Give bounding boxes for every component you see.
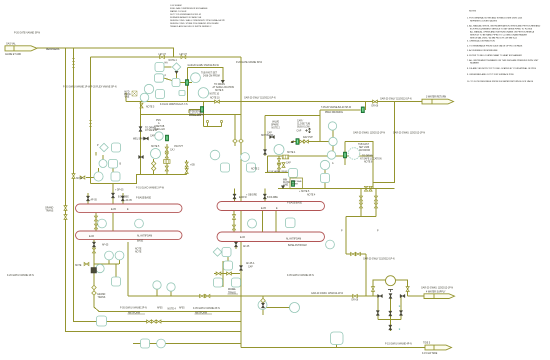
svg-text:NUMBER: NUMBER	[470, 63, 479, 65]
valve vessel gap R b	[232, 225, 235, 230]
instrument circle drain R	[290, 303, 300, 313]
svg-text:NOTES: NOTES	[469, 11, 477, 13]
svg-text:+ GB/GRE: + GB/GRE	[246, 195, 257, 197]
svg-text:AF05: AF05	[179, 306, 185, 309]
svg-text:LET-07: LET-07	[159, 54, 167, 56]
svg-text:NOTE 4: NOTE 4	[168, 309, 177, 311]
svg-text:GAR-20 GWKU 115/2012-1P-N: GAR-20 GWKU 115/2012-1P-N	[353, 132, 385, 135]
svg-text:AT SAFE W: AT SAFE W	[145, 129, 158, 132]
svg-text:SURFACE AREA 23 FC AREC HE: SURFACE AREA 23 FC AREC HE	[170, 16, 202, 19]
wire teal sq bottom stub	[336, 345, 338, 348]
svg-text:6. FILTER TO BE LOCATED NEAR T: 6. FILTER TO BE LOCATED NEAR TO HEAT EXC…	[467, 54, 522, 57]
diamond chain x153 b	[151, 166, 156, 171]
valve dark wel spare	[144, 137, 149, 140]
svg-text:GAR-20 GWLY 115/2012-1P-N: GAR-20 GWLY 115/2012-1P-N	[363, 258, 395, 261]
valve gv right prec (horiz)	[361, 107, 364, 113]
svg-text:AF-05: AF-05	[243, 245, 250, 248]
instrument circle row2	[94, 172, 103, 181]
valve dark AF-05 b	[121, 196, 124, 201]
valve LET-07 b	[181, 55, 186, 58]
wire left box lower right edge	[127, 242, 129, 296]
svg-text:GAR-20 GWKU 115/2012-1P-N: GAR-20 GWKU 115/2012-1P-N	[421, 286, 453, 289]
svg-text:F-05 GWKU VANNE 4P-N: F-05 GWKU VANNE 4P-N	[287, 274, 314, 277]
svg-text:CAP: CAP	[297, 129, 302, 132]
wire right x263 drain chain	[263, 296, 290, 315]
svg-text:AL ANTIFOAM: AL ANTIFOAM	[137, 235, 152, 238]
ticks y254	[351, 252, 356, 255]
wire right prec stub	[320, 102, 366, 110]
instrument square left mid	[112, 143, 121, 152]
instrument square top right	[179, 91, 185, 96]
svg-text:TUB FAST SET: TUB FAST SET	[201, 72, 218, 75]
bowties y296 pair	[200, 294, 205, 297]
wire y343 stub	[133, 343, 241, 345]
valve gv right upper	[296, 139, 299, 145]
svg-text:2436 CM FROM: 2436 CM FROM	[203, 76, 220, 78]
valve chain x279 b	[277, 164, 280, 169]
svg-text:ORDER: ORDER	[291, 184, 298, 186]
wire left vessel feed drop	[112, 184, 114, 205]
instrument square	[172, 79, 180, 87]
svg-text:TO DRAIN: TO DRAIN	[362, 155, 373, 158]
instrument square below vessel R	[222, 248, 231, 257]
wire center vertical main	[240, 57, 242, 348]
label prec drawing left (boxed)	[190, 112, 205, 117]
instrument square pump head	[289, 169, 298, 178]
instrument circle drain L	[258, 301, 267, 310]
instrument square row2	[111, 172, 120, 181]
instrument circle	[115, 251, 124, 260]
svg-text:NOTE 8: NOTE 8	[215, 90, 224, 92]
instrument circle vessel right end	[326, 240, 335, 249]
wire right pump connections	[293, 170, 325, 189]
instrument circle right mid	[210, 150, 220, 160]
instrument circle right box	[274, 145, 284, 155]
wire right train upper box	[265, 110, 333, 156]
svg-text:REFRIGERA: REFRIGERA	[46, 48, 60, 51]
svg-text:+GB: +GB	[190, 165, 195, 167]
svg-text:AF-05: AF-05	[91, 198, 98, 201]
wire distribution header H2	[91, 56, 242, 58]
svg-text:F-BASE/BASE: F-BASE/BASE	[287, 201, 303, 204]
svg-text:E-06: E-06	[240, 237, 246, 239]
wire right vessels interconnect	[234, 211, 276, 233]
svg-text:NOTE 2: NOTE 2	[272, 128, 281, 130]
svg-text:TRANS: TRANS	[46, 210, 54, 213]
ticks on x90.5	[89, 121, 92, 127]
svg-text:AF05: AF05	[157, 306, 163, 309]
wire right vessel feed drops	[235, 189, 265, 201]
svg-text:T-05-20 VANNE-BA-20 SP-W: T-05-20 VANNE-BA-20 SP-W	[321, 106, 352, 109]
svg-text:GAS VAL: GAS VAL	[6, 43, 16, 46]
svg-text:PSN: PSN	[156, 120, 161, 122]
svg-text:A: A	[332, 162, 334, 165]
svg-text:+ DF-05: + DF-05	[115, 189, 124, 191]
diag antifoam jog	[73, 321, 75, 323]
wire bottom long line to flag	[241, 347, 425, 349]
manifold valves main	[378, 294, 383, 297]
svg-text:CLOSE TUB: CLOSE TUB	[297, 124, 310, 126]
svg-text:AL ANTIFOAM: AL ANTIFOAM	[286, 238, 301, 241]
hyd purge box	[132, 91, 137, 96]
svg-text:1. FOR GENERAL NOTES AND SYMBO: 1. FOR GENERAL NOTES AND SYMBOLS SEE DWG…	[467, 17, 523, 20]
notes block	[467, 11, 541, 84]
tick on x73	[72, 174, 75, 179]
svg-text:DR-06: DR-06	[352, 299, 359, 301]
valve chain x166	[165, 147, 168, 152]
wire right train riser	[373, 102, 395, 189]
wire left drain stub x222 upper	[188, 67, 223, 80]
valve dark AF-05 a	[86, 196, 89, 201]
svg-text:F-01 GLIKO VANNE 2-P-W: F-01 GLIKO VANNE 2-P-W	[136, 186, 165, 189]
bowties y321 trio	[147, 320, 152, 323]
instrument square	[247, 163, 256, 172]
wire left train box left edge	[90, 57, 92, 184]
instrument square	[232, 278, 241, 287]
instrument circle left mid	[99, 160, 107, 168]
vessel E-06 left bottom	[76, 231, 183, 240]
instrument square	[156, 90, 165, 99]
valve chain x186 b	[185, 169, 188, 174]
svg-text:ALL MANUAL OPENS AND INSTRUM D: ALL MANUAL OPENS AND INSTRUM DRAINS ON P…	[470, 31, 535, 34]
instrument circle between vessels L2	[135, 219, 144, 228]
svg-text:VALVE: VALVE	[272, 121, 280, 124]
svg-text:PREC DRAWING: PREC DRAWING	[325, 111, 343, 114]
svg-text:TUB FAST: TUB FAST	[358, 143, 370, 146]
wire left train lower manifold jog	[91, 174, 187, 183]
instrument circle	[140, 93, 149, 102]
instrument square	[112, 277, 121, 286]
svg-text:E-06: E-06	[89, 236, 95, 238]
ticks on x65	[64, 206, 67, 211]
svg-text:4. TO RENEWABLE FROM SLIDE VAL: 4. TO RENEWABLE FROM SLIDE VALVE OF PID …	[467, 45, 523, 48]
svg-text:E: E	[399, 329, 401, 331]
svg-text:NOTE: NOTE	[75, 265, 82, 267]
svg-text:B DF-DBE: B DF-DBE	[267, 197, 278, 199]
svg-text:AF-05 A: AF-05 A	[246, 262, 255, 265]
svg-text:CW PVT: CW PVT	[174, 146, 184, 148]
svg-text:NOTE 10: NOTE 10	[210, 98, 220, 100]
svg-text:GRAND: GRAND	[97, 293, 106, 296]
drain balls	[206, 120, 208, 122]
silencer x166	[164, 160, 170, 164]
wire left vessels interconnect	[96, 213, 113, 232]
svg-text:P-20 GATE-VANNE SP-N: P-20 GATE-VANNE SP-N	[14, 32, 41, 35]
diamonds drain L	[92, 285, 97, 290]
svg-text:3 WATER RETURN: 3 WATER RETURN	[426, 95, 447, 98]
svg-text:C-02 000EM: C-02 000EM	[170, 5, 182, 7]
wire left chain x153	[153, 159, 155, 174]
instrument circle y343	[157, 339, 166, 348]
wire water return header	[126, 101, 422, 103]
svg-text:WEL SPARE: WEL SPARE	[133, 138, 147, 141]
instrument circle left box	[155, 132, 163, 140]
instrument circle	[328, 122, 336, 130]
svg-text:SERVICE TO BE HARD PIPED TO CL: SERVICE TO BE HARD PIPED TO CLOSED DRAIN…	[470, 34, 528, 37]
wire right chain x279	[278, 156, 280, 173]
svg-text:P: P	[165, 76, 167, 78]
flag water return right	[422, 99, 454, 104]
instrument square	[221, 163, 230, 172]
valve dark right box	[263, 150, 266, 155]
valve dark feed DF-05	[111, 193, 114, 198]
wire left below-vessel cluster	[94, 260, 120, 277]
ticks on x73 top	[72, 59, 75, 68]
svg-text:CAJ: CAJ	[170, 149, 174, 152]
svg-text:4 WATER SUPPLY: 4 WATER SUPPLY	[426, 290, 446, 293]
svg-text:LINE: LINE	[283, 185, 289, 187]
cross and arrow marks	[305, 129, 308, 132]
valve pairs x376	[374, 196, 377, 201]
pump box	[290, 178, 303, 189]
wire right inner box	[265, 156, 373, 173]
svg-text:GAR-20 GWLY 115/2012-1P-N: GAR-20 GWLY 115/2012-1P-N	[380, 98, 412, 101]
instrument circle between vessels R	[248, 219, 257, 228]
flag drain bottom-right	[425, 345, 452, 350]
svg-text:NOTE: NOTE	[135, 249, 142, 251]
svg-text:AT SAFE LOCATION: AT SAFE LOCATION	[360, 158, 382, 161]
svg-text:TIDE 5: TIDE 5	[423, 343, 431, 345]
instrument circle	[327, 151, 335, 159]
svg-text:7-05-20 W: 7-05-20 W	[190, 112, 202, 114]
arrow x222 drain	[221, 80, 225, 84]
valve gv left box	[165, 135, 168, 141]
wire right drain box	[345, 142, 373, 189]
valve gv left prec (horiz)	[200, 107, 203, 113]
valve note5 left box	[140, 103, 143, 108]
dark mark x263	[261, 303, 264, 308]
svg-text:E-05: E-05	[261, 208, 267, 210]
instrument circle between vessels L	[98, 219, 107, 228]
diamond x263	[261, 298, 266, 303]
svg-text:E-05: E-05	[111, 209, 117, 211]
svg-text:AF-05: AF-05	[102, 244, 109, 247]
svg-text:CM FROM: CM FROM	[359, 150, 370, 152]
valve dark left box	[139, 127, 142, 132]
instrument square	[321, 174, 330, 183]
instrument circle NOTE10	[198, 88, 208, 98]
svg-text:SUB 8 1/2W: SUB 8 1/2W	[297, 127, 310, 129]
wire left prec-drawing stub	[189, 102, 222, 127]
svg-text:DR-06: DR-06	[372, 106, 379, 108]
instrument circle	[167, 283, 175, 291]
svg-text:A: A	[158, 122, 160, 125]
valve vessel gap L b	[94, 224, 97, 229]
svg-text:TEMA CLASS SHOULD IF SWITE SER: TEMA CLASS SHOULD IF SWITE SERIES C	[170, 25, 212, 28]
instrument square bottom right	[331, 332, 344, 345]
valve note bowtie drain L	[84, 262, 89, 265]
valve vessel gap L a	[94, 216, 97, 221]
svg-text:DUTY 135 KW/M3 ABCD/CF/D 02: DUTY 135 KW/M3 ABCD/CF/D 02	[170, 13, 202, 16]
svg-text:HA: HA	[165, 62, 169, 65]
wire left vessel2 drain chain	[94, 240, 241, 312]
instrument diamond below vessel R	[213, 248, 221, 256]
instrument square	[224, 261, 233, 270]
svg-text:NOTE: NOTE	[76, 178, 83, 180]
bowties cluster R	[216, 272, 221, 275]
instrument circle	[329, 137, 337, 145]
valve chain x279 a	[277, 159, 280, 164]
wire supply manifold drain column	[389, 296, 391, 331]
valve chain x283	[282, 163, 285, 168]
wire left long riser x65	[66, 48, 242, 332]
flag water supply right	[424, 294, 455, 299]
instrument circle A	[320, 160, 329, 169]
valve chain x166 c	[165, 166, 168, 171]
instrument circle	[96, 264, 104, 272]
wire PSV pair stub	[234, 114, 236, 146]
valve dark below vessel L	[92, 242, 95, 247]
instrument square left mid row1	[109, 160, 118, 169]
tick below	[92, 248, 95, 253]
svg-text:CAR /: CAR /	[297, 120, 303, 123]
svg-text:VNE: VNE	[125, 97, 130, 99]
instrument circle top cluster	[144, 84, 153, 93]
wire main feed header H1	[37, 48, 174, 57]
instrument circle below vessels L	[105, 251, 114, 260]
valve DR-06 header	[373, 100, 378, 103]
svg-text:F-20 GWKU VANNE 1P-N: F-20 GWKU VANNE 1P-N	[7, 274, 34, 277]
wire left midcluster links	[86, 148, 113, 178]
valve DR-06 supply	[353, 294, 358, 297]
svg-text:E-06 W: E-06 W	[239, 197, 247, 199]
instrument square y321	[97, 316, 107, 326]
pump dark square	[91, 268, 97, 274]
svg-text:AF-05: AF-05	[126, 199, 133, 202]
silencer right	[282, 155, 288, 159]
wire left chain x186	[186, 160, 188, 174]
valve dark arrow	[139, 155, 144, 158]
svg-text:NOTE 4: NOTE 4	[169, 60, 178, 62]
svg-text:P: P	[341, 231, 343, 233]
svg-text:P: P	[97, 145, 99, 147]
valve dark vessel feed R a	[233, 194, 236, 199]
svg-text:F-TUB VANNE ORDER: F-TUB VANNE ORDER	[268, 170, 288, 173]
svg-text:+ NOTE 5: + NOTE 5	[299, 191, 310, 193]
svg-text:DAV PVP: DAV PVP	[303, 136, 313, 139]
svg-text:GAR-20 GAMU 15/2012-B1-W: GAR-20 GAMU 15/2012-B1-W	[188, 64, 220, 67]
instrument square y343	[141, 339, 150, 348]
svg-text:NOTE 4: NOTE 4	[287, 152, 296, 154]
PSV diamonds center	[233, 139, 238, 144]
wire supply manifold lower loop	[378, 296, 425, 320]
svg-text:F-20 GWKU VANNE 1P-W F-20 FLE: F-20 GWKU VANNE 1P-W F-20 FLEX VANNE SP-…	[63, 86, 117, 89]
svg-text:LET-07: LET-07	[180, 54, 188, 56]
instrument square LET row	[155, 63, 164, 72]
svg-text:CAP: CAP	[150, 135, 155, 138]
svg-text:NOTE: NOTE	[135, 252, 142, 254]
svg-text:3. CHEMICAL DISTRIBUTION: 3. CHEMICAL DISTRIBUTION	[467, 40, 495, 43]
instrument circle	[151, 149, 161, 159]
svg-text:AGIRE ET ADD: AGIRE ET ADD	[5, 53, 21, 56]
valve dark vessel feed R b	[263, 194, 266, 199]
valve vessel gap R a	[232, 215, 235, 220]
arrow top cluster	[175, 71, 179, 74]
valve pairs x361	[359, 196, 362, 201]
svg-text:BASE ANTIFOAM: BASE ANTIFOAM	[288, 244, 307, 247]
label pump	[283, 180, 290, 187]
wire left train inner box	[141, 102, 242, 175]
svg-text:P-20 GATE-VANNE SP-N: P-20 GATE-VANNE SP-N	[236, 61, 263, 64]
valve dark not-blow	[270, 135, 275, 138]
svg-text:F-15 GWKU VANNE 4P-N: F-15 GWKU VANNE 4P-N	[385, 342, 412, 345]
svg-text:TO DRAIN: TO DRAIN	[214, 83, 225, 86]
instrument diamond top	[172, 63, 180, 71]
svg-text:WASEL: WASEL	[228, 288, 237, 291]
wire left vessel stubs AF	[88, 193, 123, 204]
svg-text:F-BASE/BASE: F-BASE/BASE	[136, 196, 152, 199]
vessel E-05 right top	[217, 202, 325, 211]
svg-text:SET 2436: SET 2436	[359, 147, 370, 149]
svg-text:10. TO FLOW RESONBLE FROM 200: 10. TO FLOW RESONBLE FROM 200 WATER RETU…	[467, 80, 534, 83]
valve dark center drain	[239, 266, 242, 271]
arrow x283 drain	[281, 186, 285, 190]
manifold drain globe	[389, 325, 392, 330]
svg-text:REFRESH LOUVER VALVES: REFRESH LOUVER VALVES	[470, 20, 498, 23]
wire supply manifold upper loop	[373, 280, 408, 296]
svg-text:GAR-20 GWKU 115/2012-1P-N: GAR-20 GWKU 115/2012-1P-N	[311, 292, 343, 295]
svg-text:BASE: BASE	[137, 240, 144, 243]
svg-text:TRANS: TRANS	[98, 296, 106, 299]
wire left gv branch vertical	[187, 67, 189, 101]
label wasel trans	[228, 288, 237, 294]
svg-text:NOTE 10: NOTE 10	[210, 94, 220, 96]
svg-text:CAP: CAP	[286, 162, 291, 165]
wire hyd purge stub	[125, 93, 127, 102]
wire left antifoam diag	[73, 321, 75, 323]
valve chain x166 b	[165, 153, 168, 158]
wire left upper instrument links	[164, 67, 192, 83]
instrument circle	[241, 153, 250, 162]
valve gv right drain	[343, 152, 346, 158]
dav pvp bowties	[300, 140, 305, 143]
instrument diamond left mid	[100, 143, 108, 151]
svg-text:CAP: CAP	[267, 132, 272, 135]
svg-text:NOTE 5: NOTE 5	[151, 146, 160, 148]
svg-text:P: P	[377, 231, 379, 233]
svg-text:FUEL GAS COMPRESSOR EXCHANGE: FUEL GAS COMPRESSOR EXCHANGE	[170, 7, 208, 10]
wire water supply long line	[128, 295, 378, 297]
valve gv left upper	[185, 80, 188, 86]
svg-text:9. UNDEFINED AND OUT IT FOR SU: 9. UNDEFINED AND OUT IT FOR SURFACE PIDS	[467, 73, 514, 76]
svg-text:GAR-20 GWLY 115/2012-1P-N: GAR-20 GWLY 115/2012-1P-N	[244, 96, 276, 99]
valve chain x186 a	[185, 162, 188, 167]
valve gv pump min-flow	[291, 181, 294, 187]
svg-text:B DF-DBE: B DF-DBE	[118, 196, 129, 198]
svg-text:NOT BLOW: NOT BLOW	[261, 135, 274, 137]
svg-text:F-05 GWKU VANNE 2P-N: F-05 GWKU VANNE 2P-N	[120, 306, 147, 309]
flag inlet top-left	[5, 46, 37, 51]
instrument square between vessels R	[286, 218, 296, 228]
svg-text:5. ACCESSIBLE FROM MIDLINE: 5. ACCESSIBLE FROM MIDLINE	[467, 49, 498, 52]
svg-text:WATER COOLER: WATER COOLER	[170, 10, 187, 13]
svg-text:AT SAFE LOCATION: AT SAFE LOCATION	[213, 86, 235, 89]
svg-text:NOTE 2: NOTE 2	[251, 169, 260, 171]
title block	[170, 5, 226, 28]
wire right train jog to supply	[346, 189, 376, 296]
svg-text:2. ALL MANUAL VENTS, INSTRUMEN: 2. ALL MANUAL VENTS, INSTRUMENTATION VEN…	[467, 25, 541, 28]
svg-text:F-05 GWKU VANNE 2P-N: F-05 GWKU VANNE 2P-N	[193, 307, 220, 310]
arrow left of gv	[291, 140, 294, 143]
instrument circle on supply line	[153, 281, 161, 289]
svg-text:NOTE 4: NOTE 4	[307, 194, 316, 196]
wire circles on supply line stubs	[157, 289, 171, 296]
valve LET-07 a	[160, 55, 165, 58]
instrument square	[214, 278, 223, 287]
vessel E-05 left top	[76, 204, 183, 213]
valve header mid	[215, 100, 220, 103]
manifold loop ticks	[371, 287, 374, 292]
